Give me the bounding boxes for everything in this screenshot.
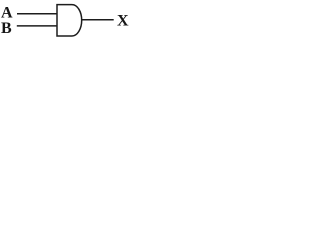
wire A input (17, 13, 57, 15)
svg-text:X: X (117, 13, 129, 30)
svg-text:A: A (1, 5, 13, 22)
wire B input (17, 25, 57, 27)
AND gate U1 (57, 5, 82, 36)
wire X output (82, 19, 114, 21)
svg-text:B: B (1, 20, 12, 37)
